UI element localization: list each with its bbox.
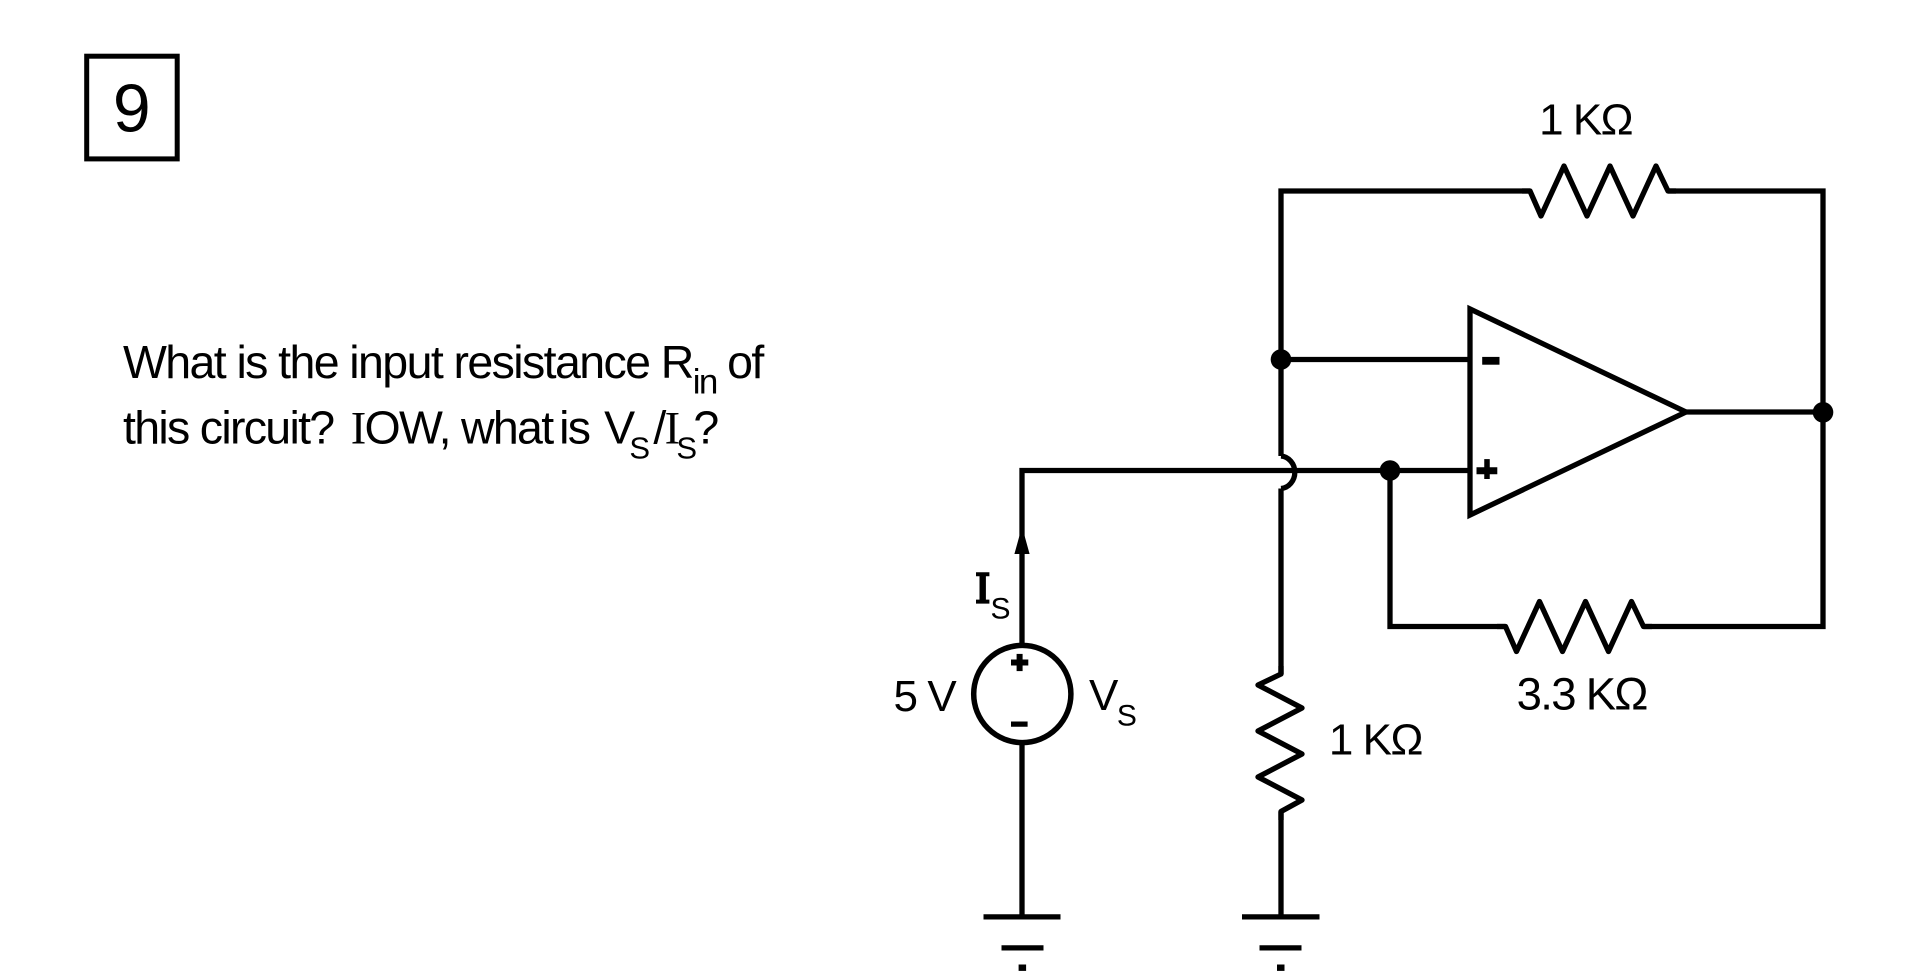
ground symbol (source) [984, 917, 1061, 968]
op-amp U1 triangle [1470, 309, 1686, 515]
svg-text:1 KΩ: 1 KΩ [1329, 716, 1422, 765]
svg-text:S: S [991, 593, 1011, 626]
svg-text:3.3 KΩ: 3.3 KΩ [1517, 669, 1648, 720]
resistor R3 3.3 KΩ (bottom feedback) [1497, 602, 1652, 652]
wire: plus input wire + source top wire down to source [1022, 471, 1470, 646]
svg-text:9: 9 [113, 70, 151, 146]
wire: bottom wire left segment + vertical up to plus node [1390, 471, 1506, 627]
svg-text:1 KΩ: 1 KΩ [1539, 96, 1632, 145]
voltage source minus sign [1011, 721, 1028, 726]
node: non-inverting input junction [1380, 460, 1401, 481]
wire: resistor R2 bottom to ground [1278, 812, 1283, 917]
wire: vertical from hop down to resistor R2 [1278, 489, 1283, 675]
wire: source bottom to ground [1019, 744, 1024, 917]
op-amp minus sign [1482, 357, 1499, 365]
voltage source VS circle [974, 645, 1071, 742]
wire: op-amp output wire [1686, 409, 1823, 414]
svg-text:5 V: 5 V [894, 672, 958, 721]
label: IS (serif I drawn as path) [976, 572, 1011, 625]
current IS arrow head [1014, 527, 1029, 555]
resistor R1 1 KΩ (top feedback) [1522, 166, 1676, 216]
node: output junction [1813, 402, 1834, 423]
ground symbol (resistor R2) [1242, 917, 1320, 968]
voltage source plus sign [1011, 654, 1028, 671]
resistor R2 1 KΩ (vertical to ground) [1258, 666, 1302, 820]
wire: top wire right segment + right vertical + bottom right segment [1644, 191, 1824, 627]
op-amp plus sign [1477, 459, 1498, 479]
question number box [87, 56, 178, 159]
wire: minus input wire [1281, 357, 1470, 362]
wire hop: vertical wire hops over plus wire [1281, 456, 1295, 489]
node: inverting input junction [1271, 349, 1292, 370]
wire: top-left loop (top wire left segment + left vertical down to hop) [1281, 191, 1530, 456]
